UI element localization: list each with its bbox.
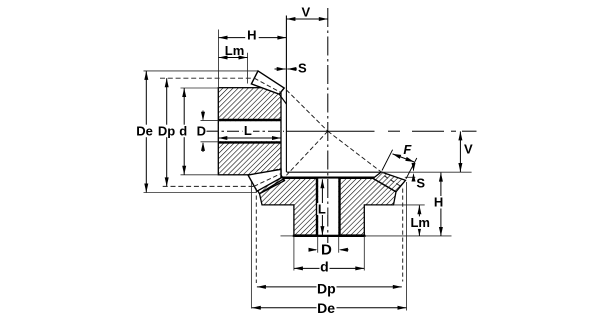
F tooth pitch dashes	[384, 176, 402, 188]
ext line d right gear left	[293, 236, 295, 271]
right gear right tooth (F tooth)	[373, 172, 406, 192]
left gear body outline	[218, 88, 281, 175]
ext line Lm right	[247, 53, 249, 84]
dimension Lm right	[410, 205, 431, 236]
dimension L right gear (bore)	[317, 179, 327, 235]
vertical centerline	[327, 8, 329, 243]
left gear bore wall top	[218, 119, 281, 121]
right gear left tooth	[250, 170, 285, 194]
svg-text:L: L	[244, 123, 252, 138]
svg-text:L: L	[318, 202, 326, 217]
ext line De right gear left	[250, 182, 252, 309]
bottom tooth pitch dashes	[254, 174, 281, 187]
svg-text:Dp: Dp	[317, 280, 336, 296]
left gear tip silhouette / extension line	[285, 16, 287, 173]
top tooth pitch dashes	[254, 78, 281, 93]
left gear bottom tooth	[248, 169, 281, 191]
dimension S right	[412, 163, 426, 191]
left gear pitch extension top (Dp)	[160, 77, 254, 79]
right gear bore (white)	[318, 179, 338, 235]
svg-text:De: De	[317, 300, 335, 316]
svg-text:De: De	[136, 124, 153, 139]
pitch line lower-left branch	[286, 131, 327, 175]
pitch line upper-left branch	[286, 90, 328, 131]
dimension F	[382, 142, 417, 179]
ext line bottom face right	[366, 235, 452, 237]
right gear top face	[281, 177, 375, 179]
dimension V right	[458, 131, 473, 172]
svg-text:F: F	[403, 142, 412, 157]
svg-text:H: H	[247, 27, 256, 42]
left gear body section	[218, 88, 281, 175]
dimension d left	[179, 88, 188, 175]
svg-text:D: D	[197, 123, 206, 138]
svg-text:Lm: Lm	[225, 43, 245, 58]
ext line De top (tip)	[144, 70, 259, 72]
svg-text:D: D	[321, 242, 332, 259]
svg-text:V: V	[464, 141, 473, 156]
D leader	[207, 130, 218, 132]
horizontal centerline	[207, 130, 477, 132]
svg-text:V: V	[301, 5, 310, 20]
ext line d bottom (body)	[181, 174, 219, 176]
left gear bore wall bottom	[218, 141, 281, 143]
dimension Dp bottom	[257, 280, 402, 296]
ext line bore bottom	[201, 141, 219, 143]
right gear pitch extension left (Dp)	[255, 189, 257, 284]
dimension H top	[219, 27, 287, 42]
ext line d right gear right	[363, 236, 365, 271]
ext line D bore left	[317, 237, 319, 253]
ext line De right gear right	[406, 182, 408, 311]
dimension S top	[275, 61, 307, 76]
svg-text:d: d	[320, 258, 329, 274]
ext line bore top	[201, 120, 219, 122]
svg-text:Dp: Dp	[158, 124, 175, 139]
ext line step right gear	[394, 204, 425, 206]
svg-text:S: S	[298, 61, 307, 76]
ext line tip right gear	[381, 171, 471, 173]
dimension D left (bore)	[197, 111, 206, 153]
svg-text:Lm: Lm	[410, 215, 430, 230]
ext line bottom face left	[281, 235, 293, 237]
dimension D bottom	[309, 242, 349, 259]
left gear pitch extension bottom (Dp)	[163, 185, 254, 187]
dimension De bottom	[252, 300, 407, 316]
svg-text:H: H	[434, 195, 443, 210]
pitch line lower-right branch	[328, 131, 382, 172]
dimension d bottom	[294, 258, 364, 274]
svg-text:S: S	[416, 176, 425, 191]
dimension V top	[286, 5, 327, 21]
right gear teeth tip line	[287, 171, 382, 173]
right gear pitch extension right (Dp)	[402, 189, 404, 282]
dimension L left gear	[218, 123, 281, 140]
left gear back cone edge top	[279, 94, 286, 104]
dimension Lm top	[219, 43, 248, 59]
ext line face right gear	[405, 176, 416, 178]
dimension H right	[433, 173, 446, 236]
ext line d top (body)	[181, 87, 219, 89]
ext line De bottom (tip)	[144, 192, 257, 194]
left gear top tooth	[251, 71, 284, 94]
left gear bore (white)	[219, 121, 280, 141]
dimension De left	[136, 71, 155, 193]
dimension Dp left	[158, 78, 177, 186]
right gear bore wall right	[338, 179, 340, 235]
right gear body section	[260, 178, 397, 235]
ext line D bore right	[338, 237, 340, 253]
ext line H/Lm left	[218, 30, 220, 88]
right gear bore wall left	[316, 179, 318, 235]
right gear bottom face	[293, 235, 366, 237]
svg-text:d: d	[179, 124, 187, 139]
